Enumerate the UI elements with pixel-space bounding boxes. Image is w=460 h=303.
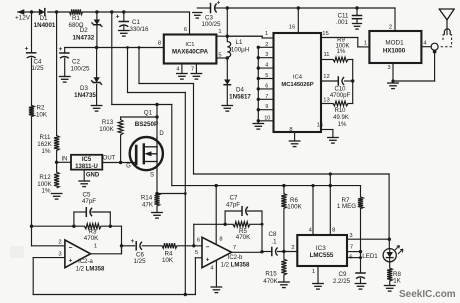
svg-text:1N5817: 1N5817 [229, 94, 251, 101]
label IC1 [172, 42, 209, 56]
label IC4 pin14 [317, 123, 324, 129]
label R15 [263, 271, 278, 286]
label LED1 [362, 253, 378, 260]
svg-text:100K: 100K [287, 203, 302, 210]
wire C1 stub [123, 12, 125, 31]
label IC2b pin6 [197, 238, 200, 244]
wire RC rail [352, 60, 354, 104]
label IC2b pin4 [210, 265, 214, 271]
svg-text:5: 5 [265, 73, 268, 79]
svg-text:3: 3 [58, 251, 61, 257]
svg-text:2: 2 [58, 239, 61, 245]
node junction source link [155, 192, 158, 195]
wire LED supply horizontal [194, 174, 390, 239]
svg-text:+: + [59, 46, 63, 53]
ground below R12 [51, 194, 62, 200]
label IC2b [221, 255, 250, 269]
op IC1 box [164, 35, 217, 64]
wire IC3 pin3 output [347, 238, 389, 240]
wire IC4 pin14 ground lead [321, 130, 333, 138]
wire zener branch 2 [139, 48, 194, 84]
svg-text:−: − [69, 244, 73, 251]
svg-text:R2: R2 [37, 105, 45, 112]
label IC3 pin1 [312, 269, 315, 275]
svg-text:7: 7 [191, 67, 194, 73]
node junction drain R13 [155, 115, 158, 118]
wire L1 node vertical [226, 8, 228, 42]
node junction pin3 [257, 56, 260, 59]
node junction pin5/L1 [226, 56, 229, 59]
wire L1 to D4 [226, 57, 228, 105]
label IC2a pin2 [58, 239, 61, 245]
svg-text:LED1: LED1 [362, 253, 378, 260]
svg-text:G: G [126, 164, 131, 170]
svg-text:+: + [25, 46, 29, 53]
wire MOD1 pin4 to jack [422, 46, 432, 48]
wire D2 stub [96, 12, 98, 48]
wire C7 branch left [225, 211, 242, 224]
resistor R10 [321, 101, 353, 106]
ground below C9 [355, 284, 366, 290]
wire IC3 pin7 stub [347, 251, 361, 253]
op IC4 box [274, 33, 322, 132]
resistor R9 [321, 57, 353, 62]
svg-text:15: 15 [322, 31, 328, 37]
svg-text:10K: 10K [36, 112, 48, 119]
wire IC1 pin7 ground lead [195, 64, 197, 74]
svg-text:D4: D4 [236, 87, 244, 94]
svg-text:49.9K: 49.9K [333, 115, 349, 121]
wire IC2a pin2 stub [32, 245, 65, 247]
node junction rail pin16 [297, 6, 300, 9]
svg-text:1N4732: 1N4732 [73, 35, 95, 42]
wire MOD1 pin2 riser [394, 8, 396, 31]
svg-text:R1: R1 [72, 15, 80, 22]
label MOD1 pin4 [423, 41, 427, 47]
wire C5 branch right [92, 212, 111, 226]
node junction R7 pin7 [359, 250, 362, 253]
svg-text:BS250P: BS250P [135, 121, 158, 128]
svg-text:4: 4 [309, 228, 313, 234]
label IC2a [76, 259, 105, 273]
label IC5 [75, 157, 98, 170]
svg-text:1K: 1K [393, 278, 401, 285]
label R14 [141, 195, 154, 209]
diode D3 zener [92, 77, 102, 84]
node junction zener branch2 [138, 46, 141, 49]
wire opamp supply horizontal [172, 185, 361, 187]
svg-text:Q1: Q1 [144, 110, 153, 117]
label C4 [31, 59, 44, 73]
wire IC3 pin8 riser [329, 172, 332, 235]
label C11 [336, 13, 349, 27]
wire rail corner into IC1 pin6 [189, 12, 191, 35]
label C9 [333, 271, 351, 285]
svg-text:IC5: IC5 [82, 157, 92, 163]
wire feedback row R3 [32, 225, 122, 227]
label C3 [202, 15, 221, 29]
wire C7 branch right [248, 211, 263, 252]
resistor R15 [281, 252, 286, 283]
label IC4 [281, 74, 313, 88]
svg-text:9: 9 [265, 104, 268, 110]
label IC4 pin12 [323, 74, 329, 80]
node junction pin5 [257, 77, 260, 80]
resistor R4 [162, 243, 177, 248]
node junction gate R13 [119, 161, 122, 164]
svg-text:C8: C8 [269, 231, 277, 238]
svg-text:L1: L1 [236, 39, 243, 46]
svg-text:1%: 1% [42, 148, 51, 155]
op-amp IC2-b [202, 237, 232, 267]
svg-text:12: 12 [323, 74, 329, 80]
label IC4 pin8 [289, 127, 292, 133]
label Q1 gate G [126, 164, 131, 170]
svg-text:MOD1: MOD1 [385, 39, 404, 46]
svg-text:8: 8 [219, 237, 222, 243]
resistor R14 [154, 194, 159, 207]
svg-text:R13: R13 [102, 119, 114, 126]
node junction reference link [184, 192, 187, 195]
wire D1 cathode to R11 rail [56, 12, 58, 136]
label watermark [399, 289, 456, 300]
wire LED cathode lead [389, 262, 391, 268]
wire +12V branch down [171, 105, 173, 186]
wire jack to ground wire [434, 52, 436, 81]
label C2 [71, 59, 90, 73]
capacitor C10 [321, 77, 353, 85]
svg-text:1/2 LM358: 1/2 LM358 [221, 262, 250, 268]
node IN junction [55, 157, 68, 165]
label IC1 pin 8 [158, 41, 161, 47]
label R6 [287, 197, 302, 210]
svg-text:IC3: IC3 [316, 245, 326, 252]
svg-text:R15: R15 [265, 271, 277, 278]
inductor L1 [227, 42, 230, 58]
svg-text:IC2-b: IC2-b [228, 255, 243, 261]
wire IC2b pin8 riser [215, 186, 217, 245]
op IC3 box [297, 235, 347, 266]
wire IC2b output row [232, 251, 272, 254]
node junction pin6 feedback [192, 244, 195, 247]
resistor R7 [358, 186, 363, 252]
svg-text:100/25: 100/25 [71, 66, 90, 73]
svg-text:330/16: 330/16 [130, 26, 149, 33]
wire R2 rail to feedback node [31, 226, 33, 246]
node junction IC3 pin8 tap [329, 184, 332, 187]
svg-text:13: 13 [323, 98, 329, 104]
label D2 [73, 27, 95, 42]
transistor Q1 [130, 137, 163, 170]
svg-text:D3: D3 [80, 85, 88, 92]
svg-text:470K: 470K [263, 278, 278, 285]
capacitor C2 [59, 46, 69, 77]
svg-text:47pF: 47pF [82, 198, 96, 205]
label R4 [162, 250, 174, 263]
op IC5 box [71, 155, 102, 170]
label R1 [69, 15, 84, 29]
label R13 [99, 119, 114, 133]
svg-text:MC145026P: MC145026P [281, 82, 313, 88]
ground below IC4 address rail [253, 124, 263, 130]
label L1 [231, 39, 249, 54]
wire IC2b feedback riser [194, 224, 262, 246]
svg-text:HX1000: HX1000 [383, 47, 406, 54]
svg-text:R10: R10 [334, 108, 346, 114]
node junction pin6 C9 [359, 256, 362, 259]
svg-text:+: + [116, 14, 120, 21]
node junction C1 top [122, 10, 125, 13]
label IC2b pin8 [219, 237, 222, 243]
svg-text:MAX640CPA: MAX640CPA [172, 49, 209, 56]
wire pin6 to C9 [360, 258, 362, 273]
wire IC4 address pin stubs [258, 47, 273, 121]
label IC4 pin16 [289, 25, 295, 31]
op-amp IC2-a [65, 240, 91, 268]
wire LED supply vertical [193, 84, 195, 175]
svg-text:4: 4 [423, 41, 427, 47]
svg-text:GND: GND [86, 173, 100, 179]
svg-text:1N4001: 1N4001 [34, 22, 56, 29]
wire IC4 address rail [257, 47, 259, 123]
wire C5 branch left [74, 212, 86, 226]
capacitor C4 [25, 46, 36, 59]
ground below R8 [384, 286, 395, 292]
node junction pin2 [257, 46, 260, 49]
connector jack [431, 43, 438, 53]
ground MOD1 pin3 [388, 83, 399, 89]
svg-text:7: 7 [265, 94, 268, 100]
label IC4 pin15 [322, 31, 328, 37]
svg-text:1/25: 1/25 [133, 258, 146, 265]
label R8 [393, 271, 402, 285]
wire IC3 pin1 ground [317, 266, 319, 284]
resistor R8 [387, 268, 392, 281]
node junction D2-D3 [95, 46, 98, 49]
svg-text:3: 3 [265, 52, 268, 58]
node junction reference bottom [184, 293, 187, 296]
svg-text:1%: 1% [338, 122, 347, 128]
svg-text:1/2 LM358: 1/2 LM358 [76, 266, 105, 272]
svg-text:6: 6 [197, 238, 200, 244]
resistor R13 [118, 117, 123, 163]
svg-text:14: 14 [317, 123, 324, 129]
wire MOD1 pin3 ground [393, 63, 435, 81]
node junction IC2b pin8 tap [215, 184, 218, 187]
label IC2b pin7 [233, 245, 236, 251]
wire gate lead [102, 162, 136, 164]
node junction Q1 drain top [155, 103, 158, 106]
label R7 [337, 197, 356, 210]
svg-text:.1: .1 [271, 239, 277, 246]
wire C8 to IC3 pin2 [278, 251, 298, 253]
wire +5V output rail [227, 7, 395, 9]
svg-text:47pF: 47pF [226, 201, 240, 208]
ground below C2 [59, 77, 69, 83]
svg-text:+: + [217, 1, 221, 7]
label IC3 pin7 [350, 245, 353, 251]
wire R14 to ground [156, 206, 158, 213]
capacitor C7 [242, 207, 248, 216]
svg-text:D2: D2 [80, 27, 88, 34]
svg-text:162K: 162K [37, 141, 52, 148]
resistor R11 [54, 136, 59, 151]
svg-text:IC4: IC4 [293, 74, 303, 80]
svg-text:D1: D1 [40, 15, 48, 22]
wire R4 to pin6 [177, 245, 202, 247]
label IC4 left pins [264, 42, 270, 122]
node junction pin3 gnd [391, 79, 394, 82]
svg-text:R11: R11 [40, 134, 51, 141]
ground IC1 pin7 [191, 74, 202, 80]
wire reference vertical [184, 93, 186, 295]
label IC1 pin 5 [218, 53, 221, 59]
label IC4 pin13 [323, 98, 329, 104]
wire C3 ground stub [197, 7, 210, 9]
label MOD1 [383, 39, 406, 54]
diode D1 [39, 9, 45, 16]
ground IC1 pin4 [177, 74, 188, 80]
svg-text:S: S [150, 173, 154, 179]
label R2 [36, 105, 48, 119]
capacitor C11 [353, 16, 362, 24]
svg-text:2: 2 [389, 25, 392, 31]
label IC4 pin1 [265, 31, 268, 37]
wire IC2a output [91, 246, 122, 254]
svg-text:7: 7 [233, 245, 236, 251]
resistor R5 [233, 222, 250, 227]
label R10 [333, 108, 349, 128]
node junction pin9 [257, 108, 260, 111]
svg-text:+: + [206, 257, 210, 263]
node junction C4 tap [30, 10, 33, 13]
svg-text:C2: C2 [72, 59, 80, 66]
svg-text:IC1: IC1 [185, 42, 194, 48]
label IC3 pin8 [332, 228, 335, 234]
node junction C10 rail [351, 79, 354, 82]
ground IC4 pin14 [328, 138, 339, 144]
ground below D3 [91, 106, 102, 112]
label C5 [82, 192, 96, 206]
capacitor C9 [356, 273, 365, 284]
ground at C3 negative [193, 13, 202, 19]
svg-text:10K: 10K [162, 257, 174, 264]
node junction IC3 pin4 tap [311, 184, 314, 187]
wire +12V branch to Q1 drain [110, 10, 172, 104]
svg-text:1 MEG: 1 MEG [337, 203, 356, 210]
svg-text:C10: C10 [334, 87, 346, 93]
ground below R14 [152, 213, 163, 219]
wire IC1 pin5 stub [216, 57, 227, 59]
wire IC2b pin4 ground [215, 261, 217, 287]
svg-text:4700pF: 4700pF [330, 93, 351, 99]
svg-text:4: 4 [176, 67, 180, 73]
label IC3 pin2 [291, 245, 294, 251]
connector antenna plug [444, 29, 450, 35]
label IC4 pin11 [323, 52, 329, 58]
svg-text:1%: 1% [337, 49, 346, 55]
resistor R2 [29, 106, 34, 117]
svg-text:1: 1 [364, 41, 367, 47]
antenna ANT1 [439, 9, 454, 29]
wire R13 top to drain [121, 116, 157, 118]
ground below C1 [119, 31, 130, 37]
label IC3 pin6 [349, 254, 352, 260]
node junction L1 top rail [226, 6, 229, 9]
svg-text:6: 6 [184, 27, 187, 33]
node junction pin10 [257, 119, 260, 122]
wire zener branch 1 [128, 48, 186, 93]
svg-text:470K: 470K [236, 234, 251, 241]
node junction inverting node [30, 225, 33, 228]
svg-text:8: 8 [332, 228, 335, 234]
label IC1 pin 6 [184, 27, 187, 33]
svg-text:2: 2 [291, 245, 294, 251]
label R9 [335, 38, 349, 56]
wire feedback down to output [121, 226, 123, 252]
wire IC5 GND lead [83, 170, 85, 181]
svg-text:1: 1 [218, 29, 221, 35]
label MOD1 pin2 [389, 25, 392, 31]
svg-text:D: D [159, 131, 164, 137]
label IC2a pin1 [94, 244, 97, 250]
svg-text:+: + [131, 239, 135, 245]
label C7 [226, 194, 240, 208]
label D1 [34, 15, 56, 29]
label IC2a pin3 [58, 251, 61, 257]
node junction D1 cathode [55, 10, 58, 13]
label IC2b pin5 [195, 250, 198, 256]
node junction R6 R15 trigger [282, 250, 285, 253]
svg-text:13811-U: 13811-U [75, 164, 98, 170]
wire zener node to IC1 pin8 [65, 47, 164, 49]
ground below IC5 [79, 181, 90, 187]
wire IN stub [57, 161, 71, 163]
node junction pin4 [257, 66, 260, 69]
label IC1 pin 4 [176, 67, 180, 73]
node junction LED top [388, 238, 391, 241]
capacitor C5 [86, 208, 92, 217]
label OUT [103, 156, 116, 162]
smudge left edge [10, 246, 24, 258]
resistor R1 [70, 9, 83, 14]
svg-text:+: + [69, 258, 73, 264]
label MOD1 pin1 [364, 41, 367, 47]
node junction output C8 [260, 250, 263, 253]
wire source lead [156, 170, 158, 193]
node junction R3 right [109, 225, 112, 228]
node junction R6 tap [282, 184, 285, 187]
op MOD1 box [369, 31, 421, 63]
ground below R15 [279, 282, 290, 288]
wire R12 top lead [56, 162, 58, 172]
ground below D4 [222, 106, 233, 112]
wire C6 to R4 [142, 245, 162, 247]
wire reference bottom [33, 294, 195, 296]
wire pin7 to pin6 rail [360, 252, 362, 258]
svg-text:7: 7 [350, 245, 353, 251]
svg-text:1: 1 [265, 31, 268, 37]
label R11 [37, 134, 52, 155]
label D3 [74, 85, 96, 99]
diode D4 [224, 80, 230, 85]
led LED1 [383, 246, 403, 262]
node +12V input label [15, 15, 31, 22]
wire source to reference link [157, 193, 185, 195]
label C10 [330, 87, 351, 100]
svg-text:1: 1 [312, 269, 315, 275]
node junction pin1/L1 [226, 35, 229, 38]
